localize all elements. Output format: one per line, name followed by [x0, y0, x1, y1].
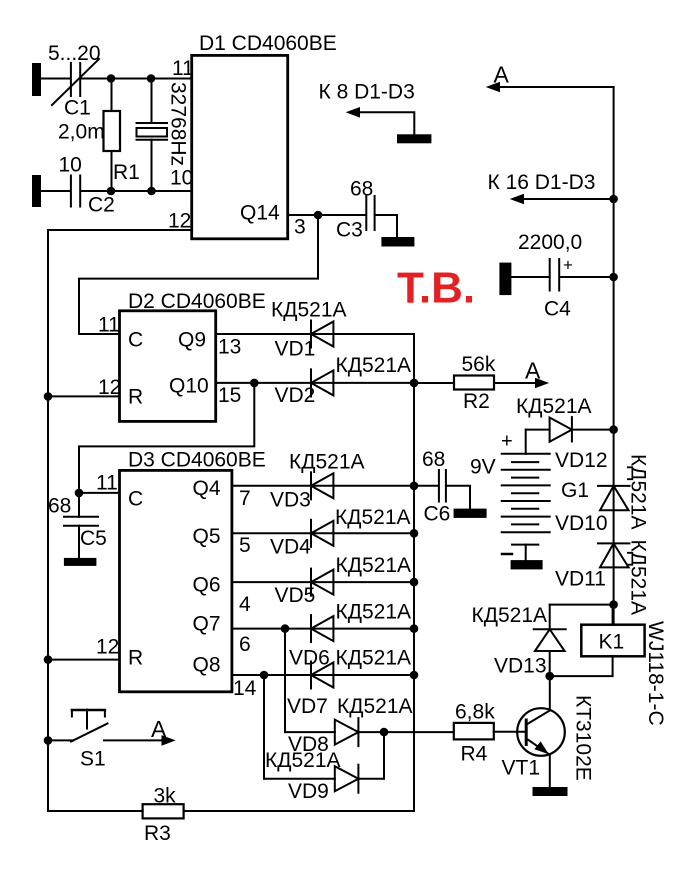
node — [410, 482, 419, 491]
node — [410, 671, 419, 680]
svg-text:Q7: Q7 — [193, 613, 221, 636]
svg-text:К 16 D1-D3: К 16 D1-D3 — [488, 171, 596, 194]
IC D2 CD4060BE — [98, 290, 266, 421]
ground bar (C6) — [454, 509, 487, 518]
svg-text:C4: C4 — [544, 298, 571, 321]
svg-text:VD12: VD12 — [555, 449, 608, 472]
svg-text:9V: 9V — [470, 456, 496, 479]
svg-text:A: A — [494, 62, 510, 88]
wire VD9 up to VD8 output — [383, 732, 385, 779]
node — [410, 379, 419, 388]
svg-text:Т.В.: Т.В. — [397, 264, 475, 313]
wire Q9 row — [216, 333, 414, 335]
svg-text:14: 14 — [233, 677, 257, 700]
diode VD11 — [555, 540, 650, 616]
diode VD1 — [271, 299, 347, 361]
diode VD8 — [285, 695, 454, 756]
svg-text:R: R — [128, 386, 143, 409]
resistor R1 — [58, 79, 140, 192]
svg-text:КД521А: КД521А — [265, 749, 341, 772]
svg-text:Q4: Q4 — [193, 477, 221, 500]
svg-text:VD1: VD1 — [275, 338, 316, 361]
diode VD5 — [275, 554, 412, 607]
svg-text:D1 CD4060BE: D1 CD4060BE — [199, 32, 337, 55]
svg-text:C2: C2 — [88, 194, 115, 217]
svg-text:R4: R4 — [461, 743, 488, 766]
wire Q10 to D3 clock — [79, 383, 254, 493]
svg-text:КТ3102Е: КТ3102Е — [572, 695, 595, 781]
svg-text:C: C — [128, 329, 143, 352]
svg-text:КД521А: КД521А — [627, 540, 650, 616]
svg-text:КД521А: КД521А — [337, 695, 413, 718]
svg-text:3: 3 — [294, 216, 306, 239]
svg-text:15: 15 — [218, 384, 241, 407]
wire R D3 — [48, 659, 120, 661]
wire to D2 clock — [79, 215, 318, 334]
node — [410, 578, 419, 587]
wire R D2 — [48, 395, 120, 397]
terminal bar (C3 common) — [381, 237, 414, 247]
svg-text:Q6: Q6 — [193, 574, 221, 597]
trimmer capacitor C1 — [48, 42, 101, 120]
svg-text:2,0m: 2,0m — [58, 121, 105, 144]
svg-text:WJ118-1-C: WJ118-1-C — [644, 621, 667, 726]
node — [281, 624, 290, 633]
IC D3 CD4060BE — [96, 449, 266, 692]
node — [314, 211, 323, 220]
svg-text:32768Hz: 32768Hz — [167, 82, 190, 166]
svg-text:D2 CD4060BE: D2 CD4060BE — [128, 290, 266, 313]
svg-text:68: 68 — [350, 178, 373, 201]
diode VD13 — [472, 604, 566, 678]
svg-text:5: 5 — [239, 534, 251, 557]
wire Q8 row — [232, 674, 414, 676]
svg-text:2200,0: 2200,0 — [518, 231, 582, 254]
svg-text:КД521А: КД521А — [336, 647, 412, 670]
capacitor C2 — [41, 154, 192, 217]
ground bar (battery minus) — [511, 560, 543, 569]
svg-text:VD5: VD5 — [275, 584, 316, 607]
svg-text:R: R — [128, 647, 143, 670]
svg-text:Q8: Q8 — [193, 654, 221, 677]
svg-text:C6: C6 — [424, 503, 451, 526]
svg-text:Q5: Q5 — [193, 525, 221, 548]
transistor VT1 КТ3102Е — [502, 677, 595, 787]
svg-text:6: 6 — [239, 633, 251, 656]
node — [147, 74, 156, 83]
capacitor C5 — [48, 493, 107, 558]
svg-text:Q9: Q9 — [178, 329, 206, 352]
diode VD10 — [555, 454, 650, 535]
node — [545, 672, 554, 681]
diode VD6 — [289, 601, 411, 670]
svg-text:7: 7 — [239, 487, 251, 510]
wire Q6 row — [232, 581, 414, 583]
node — [75, 489, 84, 498]
wire C D3 — [79, 492, 120, 494]
svg-text:A: A — [151, 716, 167, 742]
node — [609, 600, 618, 609]
svg-text:КД521А: КД521А — [289, 451, 365, 474]
svg-text:+: + — [563, 256, 573, 275]
wire Q7 row — [232, 628, 414, 630]
IC D1 CD4060BE — [168, 32, 337, 239]
svg-text:68: 68 — [48, 495, 71, 518]
svg-text:C5: C5 — [80, 527, 107, 550]
terminal bar (K8 common) — [397, 134, 431, 143]
svg-text:VT1: VT1 — [502, 757, 541, 780]
svg-text:VD11: VD11 — [555, 568, 606, 591]
resistor R2 — [414, 353, 536, 413]
svg-text:11: 11 — [98, 314, 120, 337]
diode VD3 — [270, 451, 365, 512]
node — [410, 624, 419, 633]
wire left rail — [47, 230, 49, 811]
terminal bar X1 — [32, 63, 41, 96]
wire — [41, 78, 70, 80]
svg-text:Q10: Q10 — [169, 375, 209, 398]
resistor R3 — [48, 785, 184, 846]
node — [410, 529, 419, 538]
net label A (S1) — [104, 716, 176, 746]
relay K1 — [550, 605, 667, 726]
svg-text:VD2: VD2 — [275, 384, 316, 407]
capacitor C6 — [414, 448, 470, 526]
svg-text:C1: C1 — [64, 97, 91, 120]
svg-text:11: 11 — [172, 57, 194, 80]
svg-text:КД521А: КД521А — [271, 299, 347, 322]
svg-text:VD7: VD7 — [287, 695, 328, 718]
svg-text:КД521А: КД521А — [627, 454, 650, 530]
svg-text:K1: K1 — [599, 631, 625, 654]
diode VD7 — [287, 647, 411, 719]
net label A (after R2) — [525, 358, 549, 389]
svg-text:56k: 56k — [462, 353, 496, 376]
svg-text:R1: R1 — [113, 161, 140, 184]
node — [44, 736, 53, 745]
svg-text:VD3: VD3 — [270, 489, 311, 512]
svg-text:13: 13 — [218, 336, 241, 359]
svg-text:КД521А: КД521А — [335, 506, 411, 529]
node — [609, 425, 618, 434]
diode VD12 — [516, 395, 614, 472]
svg-text:КД521А: КД521А — [516, 395, 592, 418]
power bus +9V vertical — [613, 87, 615, 625]
wire Q4 row — [232, 485, 414, 487]
wire VD7-junction down to VD9 row — [263, 675, 265, 779]
svg-text:D3 CD4060BE: D3 CD4060BE — [128, 449, 266, 472]
net label A (top right) — [486, 62, 614, 93]
terminal bar X2 — [32, 175, 41, 207]
resistor R4 — [454, 701, 525, 766]
node — [44, 655, 53, 664]
svg-text:10: 10 — [170, 167, 193, 190]
svg-text:A: A — [525, 358, 541, 384]
svg-text:68: 68 — [422, 448, 445, 471]
node — [44, 392, 53, 401]
wire to VD13 — [550, 604, 614, 606]
svg-text:VD13: VD13 — [494, 655, 547, 678]
svg-text:К 8 D1-D3: К 8 D1-D3 — [319, 81, 415, 104]
svg-text:3k: 3k — [154, 785, 177, 808]
svg-text:КД521А: КД521А — [336, 601, 412, 624]
capacitor C3 — [318, 178, 397, 242]
svg-text:КД521А: КД521А — [472, 604, 548, 627]
svg-text:5...20: 5...20 — [48, 42, 101, 65]
wire Q5 row — [232, 532, 414, 534]
svg-text:6,8k: 6,8k — [455, 701, 495, 724]
node — [260, 671, 269, 680]
diode VD4 — [270, 506, 411, 559]
svg-text:R3: R3 — [144, 822, 171, 845]
svg-text:C: C — [128, 488, 143, 511]
net label К 8 D1-D3 — [319, 81, 415, 135]
ground bar (VT1 emitter) — [533, 787, 568, 796]
node — [609, 273, 618, 282]
svg-text:+: + — [501, 431, 513, 453]
svg-text:C3: C3 — [336, 219, 363, 242]
svg-text:КД521А: КД521А — [336, 354, 412, 377]
capacitor C4 electrolytic — [511, 231, 613, 321]
svg-text:VD4: VD4 — [270, 536, 311, 559]
svg-text:КД521А: КД521А — [336, 554, 412, 577]
node — [609, 195, 618, 204]
diode VD2 — [275, 354, 412, 407]
node — [147, 187, 156, 196]
wire VD6-junction down to VD8 row — [284, 629, 286, 733]
svg-text:12: 12 — [96, 636, 119, 659]
svg-text:VD10: VD10 — [555, 512, 608, 535]
svg-text:Q14: Q14 — [240, 202, 280, 225]
svg-text:VD6: VD6 — [289, 647, 330, 670]
svg-text:VD9: VD9 — [288, 780, 329, 803]
wire — [81, 78, 192, 80]
wire Q10 row — [216, 382, 414, 384]
crystal ZQ1 32768Hz — [137, 79, 190, 192]
terminal bar (C4 common) — [499, 263, 511, 296]
pushbutton S1 — [48, 710, 108, 771]
wire pin12 D1 — [48, 229, 192, 231]
svg-text:4: 4 — [239, 593, 251, 616]
node — [380, 728, 389, 737]
svg-text:G1: G1 — [561, 479, 589, 502]
net label К 16 D1-D3 — [488, 171, 614, 204]
svg-text:S1: S1 — [80, 748, 106, 771]
node — [107, 187, 116, 196]
battery G1 — [470, 430, 589, 560]
node — [107, 74, 116, 83]
svg-text:10: 10 — [59, 154, 82, 177]
diode VD9 — [264, 749, 384, 803]
main diode bus — [184, 334, 415, 811]
svg-text:11: 11 — [96, 472, 118, 495]
node — [250, 379, 259, 388]
ground bar (C5) — [64, 558, 97, 566]
svg-text:R2: R2 — [463, 390, 490, 413]
wire Q14 pin3 — [288, 214, 318, 216]
